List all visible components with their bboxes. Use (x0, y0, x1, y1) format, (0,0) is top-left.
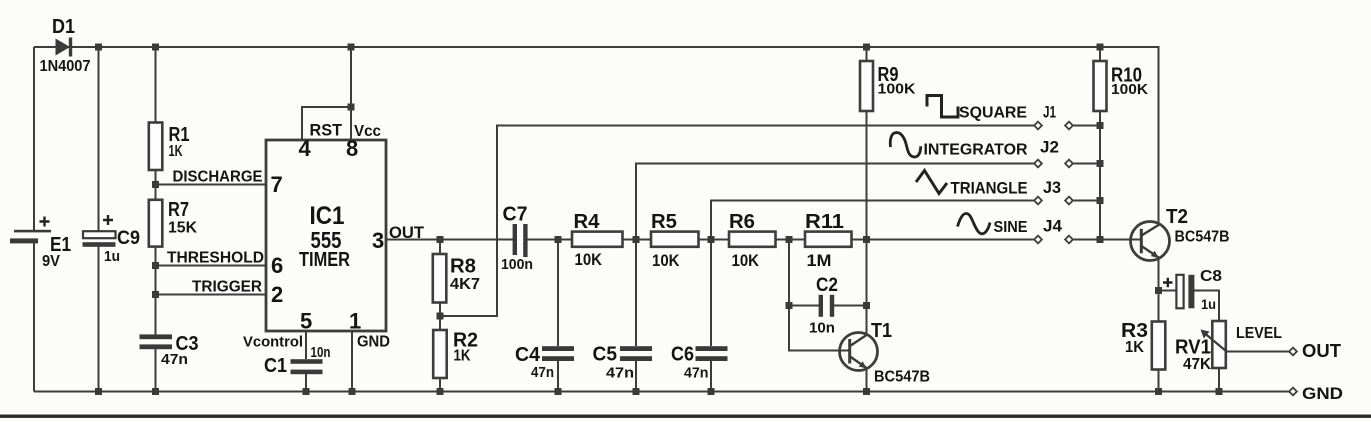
wire level output to OUT terminal (1227, 351, 1290, 353)
node R8 R2 divider junction (437, 313, 444, 320)
node R6 R11 C2 junction (786, 236, 793, 243)
wire C5 bottom lead (635, 361, 637, 392)
svg-text:C7: C7 (503, 204, 528, 226)
svg-text:10K: 10K (652, 251, 680, 270)
resistor R9 (860, 61, 873, 111)
jumper J3 (1034, 197, 1073, 205)
svg-text:9V: 9V (42, 253, 60, 270)
svg-text:1K: 1K (454, 348, 471, 365)
svg-text:INTEGRATOR: INTEGRATOR (924, 142, 1028, 159)
svg-text:T1: T1 (871, 320, 892, 342)
terminal diamond OUT (1289, 348, 1297, 356)
svg-text:100K: 100K (1111, 81, 1148, 98)
svg-text:R7: R7 (168, 199, 189, 221)
node discharge junction (152, 181, 159, 188)
svg-text:1: 1 (349, 309, 361, 334)
capacitor C8 (1163, 275, 1194, 309)
svg-text:IC1: IC1 (310, 202, 345, 230)
resistor R10 (1094, 61, 1107, 111)
svg-text:100K: 100K (878, 81, 916, 98)
wire T2 collector drop (1158, 222, 1160, 226)
bottom frame border (0, 415, 1371, 418)
wire R10 bottom lead jumper bus (1099, 111, 1101, 240)
node ground C3 junction (152, 388, 159, 395)
svg-text:10K: 10K (732, 251, 760, 270)
node R10 sine T2 base junction (1097, 236, 1104, 243)
svg-text:J4: J4 (1043, 217, 1063, 236)
svg-text:7: 7 (271, 172, 283, 197)
node ground pin1 junction (349, 388, 356, 395)
resistor R8 (433, 254, 447, 303)
node ground C5 junction (633, 388, 640, 395)
svg-text:TRIANGLE: TRIANGLE (951, 179, 1028, 198)
wire left battery branch upper (33, 47, 35, 231)
svg-text:4K7: 4K7 (450, 276, 480, 293)
resistor R2 (433, 330, 447, 378)
wire top supply rail (34, 47, 1159, 222)
svg-text:R8: R8 (450, 256, 476, 278)
wire C6 bottom lead (710, 361, 712, 392)
wire DISCHARGE net (156, 184, 267, 186)
wire T1 collector (866, 240, 868, 337)
wire R8 bottom to R2 top node (439, 303, 441, 331)
svg-text:C9: C9 (117, 228, 140, 249)
jumper J1 (1034, 122, 1073, 130)
svg-text:10K: 10K (575, 250, 603, 269)
capacitor C3 (140, 334, 173, 349)
svg-text:C5: C5 (593, 344, 618, 366)
node C2 right T1 collector junction (863, 302, 870, 309)
wire R7 bottom lead to threshold node (155, 247, 157, 295)
wire OUT net pin 3 to C7 (386, 239, 513, 241)
square wave symbol (927, 96, 958, 118)
svg-text:10n: 10n (311, 344, 331, 361)
wire left battery branch lower (33, 243, 35, 392)
wire C7 right to R4 (528, 239, 573, 241)
svg-text:1u: 1u (1201, 296, 1216, 312)
wire R5 right junction to R6 (699, 239, 730, 241)
wire triangle jumper to R10 column (1074, 200, 1101, 202)
svg-text:3: 3 (372, 228, 384, 253)
wire C2 left branch down to T1 base (789, 240, 850, 351)
jumper J4 (1034, 236, 1073, 244)
svg-text:SINE: SINE (994, 219, 1028, 236)
wire T2 emitter down to C8 node (1158, 257, 1160, 322)
svg-text:47n: 47n (606, 365, 634, 382)
wire C4 bottom lead (557, 361, 559, 392)
wire triangle feed up (711, 201, 1034, 240)
svg-text:10n: 10n (809, 320, 835, 337)
svg-text:47n: 47n (161, 351, 188, 368)
wire R1 top lead (155, 47, 157, 123)
svg-text:2: 2 (271, 282, 283, 307)
svg-text:1M: 1M (807, 251, 832, 270)
wire T1 emitter to ground (866, 367, 868, 392)
svg-text:OUT: OUT (1302, 341, 1341, 361)
wire R9 bottom lead down to sine node (866, 111, 868, 240)
node threshold junction (152, 262, 159, 269)
wire threshold to trigger to C3 (155, 295, 157, 335)
svg-text:T2: T2 (1166, 206, 1188, 228)
terminal diamond GND (1289, 388, 1297, 396)
capacitor C5 (620, 346, 652, 361)
svg-text:C2: C2 (816, 275, 838, 296)
wire TRIGGER net (156, 294, 267, 296)
svg-text:Vcontrol: Vcontrol (243, 334, 303, 351)
wire C2 right plate stub (834, 305, 867, 307)
node ground C1 junction (303, 388, 310, 395)
svg-text:BC547B: BC547B (1175, 229, 1230, 246)
capacitor C7 (513, 224, 528, 257)
wire bottom ground rail (34, 391, 1290, 393)
node top rail C9 junction (95, 44, 102, 51)
svg-text:1K: 1K (169, 143, 183, 160)
wire R8 top lead (439, 240, 441, 255)
wire THRESHOLD net (156, 265, 267, 267)
node C8 T2 emitter junction (1155, 287, 1162, 294)
node ground C9 junction (95, 388, 102, 395)
svg-text:C1: C1 (264, 355, 287, 377)
svg-text:47K: 47K (1183, 356, 1211, 373)
svg-text:C6: C6 (671, 344, 694, 366)
node R5 R6 C6 junction (708, 236, 715, 243)
svg-text:J1: J1 (1043, 103, 1056, 122)
wire C1 to ground rail (305, 374, 307, 392)
resistor R7 (149, 200, 163, 247)
wire R1 bottom lead to discharge node (155, 170, 157, 200)
wire R4 right junction to R5 (623, 239, 652, 241)
svg-text:BC547B: BC547B (874, 369, 930, 386)
svg-text:R5: R5 (651, 211, 677, 233)
wire C2 left plate stub (789, 305, 819, 307)
sine wave symbol (958, 214, 991, 234)
svg-text:8: 8 (346, 136, 358, 161)
resistor R11 (805, 232, 852, 247)
wire R3 bottom lead (1158, 370, 1160, 392)
svg-text:THRESHOLD: THRESHOLD (167, 250, 264, 267)
resistor R3 (1152, 322, 1166, 370)
svg-text:R4: R4 (574, 211, 601, 233)
node ground C4 junction (555, 388, 562, 395)
wire R2 bottom lead (439, 378, 441, 392)
wire RST bracket to pin 4 (302, 107, 351, 140)
svg-text:R11: R11 (805, 211, 844, 233)
capacitor C9 (83, 215, 116, 247)
node ground RV1 junction (1216, 388, 1223, 395)
wire C4 top lead (557, 240, 559, 347)
wire C9 branch lower (98, 247, 100, 392)
node RST bracket junction (348, 104, 355, 111)
wire sine jumper to T2 base (1074, 239, 1142, 241)
jumper J2 (1034, 160, 1073, 168)
svg-text:1u: 1u (104, 248, 120, 265)
svg-text:J3: J3 (1043, 178, 1061, 197)
battery E1 (10, 217, 51, 244)
wire RV1 bottom lead (1218, 368, 1220, 392)
node C2 left junction (786, 302, 793, 309)
capacitor C6 (696, 346, 728, 361)
transistor Q T1 (840, 333, 878, 371)
op-amp IC1 555 timer box (266, 140, 386, 331)
wire pin 1 GND to ground rail (351, 331, 353, 392)
wire square jumper to R10 column (1074, 125, 1101, 127)
potentiometer RV1 (1201, 321, 1227, 368)
node ground T1 emitter junction (863, 388, 870, 395)
integrator wave symbol (890, 133, 920, 157)
capacitor C2 (819, 295, 835, 317)
svg-text:TIMER: TIMER (299, 248, 350, 271)
wire C9 branch upper (98, 47, 100, 232)
node C7 R4 C4 junction (555, 236, 562, 243)
diode D1 (56, 38, 73, 57)
wire C3 bottom lead (155, 349, 157, 392)
node trigger junction (152, 291, 159, 298)
transistor Q T2 (1131, 222, 1170, 261)
svg-text:47n: 47n (531, 364, 554, 381)
wire sine net R11 to jumper J4 (852, 239, 1034, 241)
resistor R4 (572, 232, 623, 247)
node R4 R5 C5 junction (633, 236, 640, 243)
wire R6 right junction to R11 (776, 239, 806, 241)
svg-text:4: 4 (299, 136, 312, 161)
node ground R2 junction (437, 388, 444, 395)
capacitor C1 (291, 359, 323, 374)
wire pin 5 to C1 (305, 331, 307, 359)
svg-text:TRIGGER: TRIGGER (192, 279, 262, 296)
node ground R3 junction (1155, 388, 1162, 395)
svg-text:R6: R6 (729, 211, 755, 233)
wire C8 left stub (1159, 290, 1177, 292)
svg-text:47n: 47n (684, 365, 709, 382)
svg-text:GND: GND (357, 334, 390, 351)
svg-text:GND: GND (1302, 384, 1343, 403)
svg-text:5: 5 (300, 309, 312, 334)
node top rail Vcc junction (348, 44, 355, 51)
wire Vcc drop from rail to pin 8 (350, 47, 352, 140)
resistor R6 (729, 232, 776, 247)
svg-text:100n: 100n (501, 256, 533, 273)
wire C6 top lead (710, 240, 712, 347)
triangle wave symbol (916, 171, 947, 194)
svg-text:1N4007: 1N4007 (40, 58, 91, 75)
wire square divider feed up (440, 126, 1034, 317)
svg-text:SQUARE: SQUARE (959, 105, 1027, 122)
node R10 triangle junction (1097, 197, 1104, 204)
svg-text:J2: J2 (1040, 138, 1059, 157)
svg-text:LEVEL: LEVEL (1236, 325, 1282, 342)
node R11 R9 sine junction (863, 236, 870, 243)
svg-text:15K: 15K (168, 220, 197, 237)
wire integrator feed up (636, 164, 1034, 240)
svg-text:C4: C4 (515, 344, 541, 366)
wire R10 top lead (1099, 47, 1101, 61)
svg-text:DISCHARGE: DISCHARGE (173, 169, 263, 186)
node R10 square junction (1097, 122, 1104, 129)
node top rail R10 junction (1097, 44, 1104, 51)
wire R9 top lead (866, 47, 868, 61)
capacitor C4 (542, 346, 574, 361)
wire integrator jumper to R10 column (1074, 163, 1101, 165)
svg-text:6: 6 (271, 253, 283, 278)
node R10 integrator junction (1097, 160, 1104, 167)
svg-text:1K: 1K (1125, 339, 1144, 356)
wire C8 right to RV1 top (1194, 291, 1219, 322)
svg-text:C8: C8 (1200, 268, 1222, 285)
svg-text:D1: D1 (52, 16, 75, 38)
node top rail R1 junction (152, 44, 159, 51)
resistor R5 (651, 232, 699, 247)
svg-text:RST: RST (310, 121, 343, 140)
svg-text:OUT: OUT (389, 223, 425, 242)
node top rail R9 junction (863, 44, 870, 51)
wire C5 top lead (635, 240, 637, 347)
node ground C6 junction (708, 388, 715, 395)
node out R8 junction (437, 236, 444, 243)
resistor R1 (149, 123, 163, 171)
